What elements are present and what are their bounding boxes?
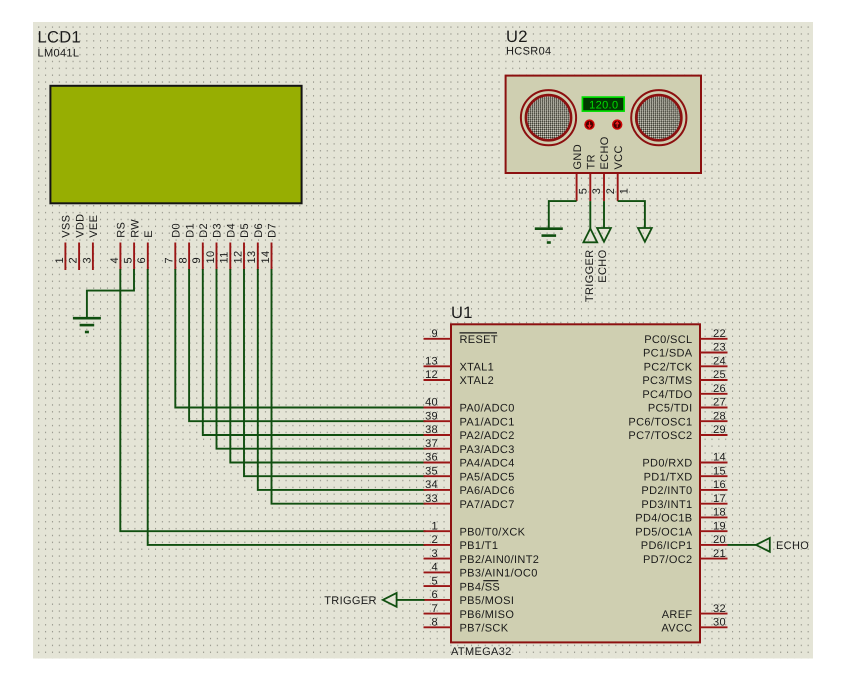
svg-text:7: 7: [432, 603, 438, 615]
U1 left pin 34 (PA6/ADC6): [424, 479, 515, 497]
TRIGGER terminal label (rotated): [584, 250, 596, 303]
U1 left pin 37 (PA3/ADC3): [424, 438, 515, 456]
svg-text:VDD: VDD: [74, 214, 86, 238]
svg-text:PD6/ICP1: PD6/ICP1: [641, 540, 693, 552]
svg-text:6: 6: [432, 589, 438, 601]
U2 HCSR04 body: [506, 76, 701, 173]
svg-text:E: E: [143, 230, 155, 238]
U1 left pin 4 (PB3/AIN1/OC0): [424, 562, 538, 580]
wire: U2 ECHO pin down to ECHO terminal: [603, 201, 605, 228]
svg-text:XTAL1: XTAL1: [460, 362, 495, 374]
svg-text:PC2/TCK: PC2/TCK: [644, 362, 693, 374]
U1 right pin 30 (AVCC): [661, 617, 727, 635]
svg-text:PA3/ADC3: PA3/ADC3: [460, 444, 515, 456]
U1 left pin 39 (PA1/ADC1): [424, 410, 515, 428]
svg-text:PA5/ADC5: PA5/ADC5: [460, 471, 515, 483]
U1 left pin 35 (PA5/ADC5): [424, 465, 515, 483]
U1 left pin 12 (XTAL2): [424, 369, 495, 387]
U1 ATMEGA32 body: [451, 324, 700, 642]
svg-text:D2: D2: [198, 223, 210, 238]
svg-text:16: 16: [713, 479, 726, 491]
U2 right LED indicator (up arrow): [612, 119, 622, 129]
ECHO terminal label at U1: [776, 540, 809, 552]
svg-text:D5: D5: [239, 223, 251, 238]
svg-text:9: 9: [191, 257, 203, 263]
svg-text:7: 7: [164, 257, 176, 263]
wire: LCD D4 to U1 PA4: [230, 269, 425, 463]
svg-text:PA2/ADC2: PA2/ADC2: [460, 430, 515, 442]
U1 right pin 26 (PC4/TDO): [642, 383, 727, 401]
svg-text:5: 5: [123, 257, 135, 263]
svg-text:PB5/MOSI: PB5/MOSI: [460, 595, 515, 607]
wire: U2 VCC pin right and down to power arrow: [618, 201, 645, 228]
svg-text:HCSR04: HCSR04: [506, 46, 552, 58]
svg-text:D0: D0: [171, 223, 183, 238]
svg-text:PB1/T1: PB1/T1: [460, 540, 499, 552]
svg-text:PA6/ADC6: PA6/ADC6: [460, 485, 515, 497]
LCD1 pin 11 (D4): stub, number, name: [219, 223, 238, 270]
LCD1 screen (LM041L display area): [50, 86, 301, 204]
svg-text:D4: D4: [226, 223, 238, 238]
U1 right pin 24 (PC2/TCK): [644, 356, 728, 374]
svg-text:18: 18: [713, 507, 726, 519]
svg-text:19: 19: [713, 520, 726, 532]
VCC power terminal (down arrow): [638, 228, 652, 242]
U1 right pin 23 (PC1/SDA): [643, 342, 728, 360]
U1 left pin 36 (PA4/ADC4): [424, 452, 515, 470]
svg-text:1: 1: [432, 520, 438, 532]
svg-text:120.0: 120.0: [589, 99, 618, 111]
svg-text:PA4/ADC4: PA4/ADC4: [460, 458, 515, 470]
svg-text:17: 17: [713, 493, 726, 505]
svg-text:5: 5: [577, 188, 589, 194]
U1 right pin 32 (AREF): [662, 603, 728, 621]
svg-text:12: 12: [232, 251, 244, 264]
LCD1 pin 4 (RS): stub, number, name: [109, 222, 128, 270]
svg-text:40: 40: [425, 397, 438, 409]
ECHO terminal label (rotated): [597, 249, 609, 282]
svg-text:PB7/SCK: PB7/SCK: [460, 623, 509, 635]
U1 right pin 17 (PD3/INT1): [641, 493, 727, 511]
svg-text:25: 25: [713, 369, 726, 381]
U2 pin 2 (ECHO): stub, number, name: [599, 136, 617, 201]
svg-text:PC0/SCL: PC0/SCL: [644, 334, 692, 346]
svg-text:VCC: VCC: [613, 145, 625, 169]
U2 pin 5 (GND): stub, number, name: [572, 144, 590, 201]
svg-text:4: 4: [109, 257, 121, 263]
svg-text:PD7/OC2: PD7/OC2: [643, 554, 693, 566]
wire: U2 TR pin down to TRIGGER terminal: [589, 201, 591, 228]
U1 left pin 2 (PB1/T1): [424, 534, 499, 552]
svg-text:13: 13: [425, 356, 438, 368]
svg-text:39: 39: [425, 410, 438, 422]
svg-text:U2: U2: [506, 28, 528, 46]
svg-text:ATMEGA32: ATMEGA32: [451, 646, 512, 658]
svg-text:32: 32: [713, 603, 726, 615]
svg-text:2: 2: [68, 257, 80, 263]
svg-text:RESET: RESET: [460, 334, 498, 346]
svg-text:PC6/TOSC1: PC6/TOSC1: [628, 416, 692, 428]
U1 left pin 3 (PB2/AIN0/INT2): [424, 548, 540, 566]
svg-text:8: 8: [432, 617, 438, 629]
svg-text:U1: U1: [451, 304, 473, 322]
svg-text:VEE: VEE: [88, 215, 100, 238]
U1 right pin 28 (PC6/TOSC1): [628, 410, 727, 428]
U2 left LED indicator (down arrow): [584, 119, 594, 129]
svg-text:11: 11: [219, 251, 231, 263]
svg-text:D1: D1: [184, 223, 196, 238]
svg-text:2: 2: [605, 188, 617, 194]
svg-text:9: 9: [432, 328, 438, 340]
U1 right pin 29 (PC7/TOSC2): [628, 424, 727, 442]
svg-text:14: 14: [260, 251, 272, 264]
LCD1 pin 6 (E): stub, number, name: [136, 230, 155, 270]
wire: LCD D0 to U1 PA0: [175, 269, 425, 408]
ECHO terminal (left arrow) at U1: [756, 538, 770, 552]
U1 left pin 33 (PA7/ADC7): [424, 493, 515, 511]
ECHO output terminal (down arrow) below U2: [597, 228, 611, 242]
U1 left pin 40 (PA0/ADC0): [424, 397, 515, 415]
U2 distance display showing 120.0: [582, 97, 624, 111]
wire: LCD RS (pin4) to U1 PB0 pin1: [120, 269, 425, 531]
U1 left pin 7 (PB6/MISO): [424, 603, 515, 621]
svg-text:22: 22: [713, 328, 726, 340]
U1 left pin 9 (RESET): [424, 328, 498, 346]
LCD1 pin 7 (D0): stub, number, name: [164, 223, 183, 270]
svg-text:34: 34: [425, 479, 438, 491]
svg-text:23: 23: [713, 342, 726, 354]
wire: LCD D7 to U1 PA7: [272, 269, 426, 504]
svg-text:TRIGGER: TRIGGER: [324, 595, 377, 607]
svg-text:XTAL2: XTAL2: [460, 375, 495, 387]
svg-text:27: 27: [713, 397, 726, 409]
U2 right ultrasonic transducer: [631, 90, 686, 145]
svg-text:12: 12: [425, 369, 438, 381]
U1 value label ATMEGA32: [451, 646, 512, 658]
TRIGGER terminal label at U1: [324, 595, 377, 607]
svg-text:PC1/SDA: PC1/SDA: [643, 348, 693, 360]
svg-text:20: 20: [713, 534, 726, 546]
ground symbol below U2: [535, 229, 563, 243]
svg-text:PB6/MISO: PB6/MISO: [460, 609, 515, 621]
svg-text:PD2/INT0: PD2/INT0: [641, 485, 692, 497]
wire: TRIGGER terminal to U1 PB5/MOSI: [397, 599, 425, 601]
svg-text:PC5/TDI: PC5/TDI: [648, 403, 693, 415]
U2 left ultrasonic transducer: [521, 90, 576, 145]
svg-text:PA0/ADC0: PA0/ADC0: [460, 403, 515, 415]
svg-text:PC7/TOSC2: PC7/TOSC2: [628, 430, 692, 442]
wire: LCD D6 to U1 PA6: [258, 269, 426, 490]
U2 reference label: [506, 28, 528, 46]
LCD1 pin 2 (VDD): stub, number, name: [68, 214, 87, 270]
svg-text:15: 15: [713, 465, 726, 477]
LCD1 pin 3 (VEE): stub, number, name: [81, 215, 100, 270]
svg-text:38: 38: [425, 424, 438, 436]
LCD1 pin 13 (D6): stub, number, name: [246, 223, 265, 270]
U1 left pin 13 (XTAL1): [424, 356, 495, 374]
U1 right pin 27 (PC5/TDI): [648, 397, 728, 415]
svg-text:8: 8: [178, 257, 190, 263]
svg-text:PD0/RXD: PD0/RXD: [642, 458, 692, 470]
svg-text:21: 21: [713, 548, 726, 560]
svg-text:PB3/AIN1/OC0: PB3/AIN1/OC0: [460, 568, 538, 580]
U2 value label HCSR04: [506, 46, 552, 58]
svg-text:AVCC: AVCC: [661, 623, 692, 635]
svg-text:28: 28: [713, 410, 726, 422]
svg-text:3: 3: [81, 257, 93, 263]
svg-text:TRIGGER: TRIGGER: [584, 250, 596, 303]
svg-text:PD5/OC1A: PD5/OC1A: [635, 526, 693, 538]
U1 right pin 15 (PD1/TXD): [644, 465, 728, 483]
LCD1 pin 5 (RW): stub, number, name: [123, 219, 142, 270]
U1 right pin 20 (PD6/ICP1): [641, 534, 728, 552]
svg-text:14: 14: [713, 452, 726, 464]
svg-text:ECHO: ECHO: [599, 136, 611, 169]
LCD1 pin 1 (VSS): stub, number, name: [54, 215, 73, 270]
U1 left pin 38 (PA2/ADC2): [424, 424, 515, 442]
LCD1 value label LM041L: [38, 48, 80, 60]
svg-text:35: 35: [425, 465, 438, 477]
svg-text:13: 13: [246, 251, 258, 264]
svg-text:24: 24: [713, 356, 726, 368]
U2 pin 1 (VCC): stub, number, name: [613, 145, 631, 201]
svg-text:36: 36: [425, 452, 438, 464]
svg-text:D3: D3: [212, 223, 224, 238]
LCD1 pin 9 (D2): stub, number, name: [191, 223, 210, 270]
svg-text:30: 30: [713, 617, 726, 629]
LCD1 pin 14 (D7): stub, number, name: [260, 223, 279, 270]
wire: LCD D5 to U1 PA5: [244, 269, 426, 476]
U1 right pin 18 (PD4/OC1B): [635, 507, 727, 525]
TRIGGER terminal (left arrow) at U1: [383, 593, 397, 607]
U1 left pin 5 (PB4/SS): [424, 575, 501, 593]
svg-text:PC4/TDO: PC4/TDO: [642, 389, 692, 401]
wire: LCD D3 to U1 PA3: [217, 269, 426, 449]
svg-text:PD3/INT1: PD3/INT1: [641, 499, 692, 511]
svg-text:2: 2: [432, 534, 438, 546]
svg-text:26: 26: [713, 383, 726, 395]
svg-text:LCD1: LCD1: [38, 29, 82, 47]
svg-text:D7: D7: [267, 223, 279, 238]
wire: U2 GND pin to ground: [549, 201, 577, 229]
U1 left pin 8 (PB7/SCK): [424, 617, 509, 635]
svg-text:ECHO: ECHO: [597, 249, 609, 282]
svg-text:PB0/T0/XCK: PB0/T0/XCK: [460, 526, 526, 538]
svg-text:6: 6: [136, 257, 148, 263]
wire: LCD D1 to U1 PA1: [189, 269, 425, 421]
U2 pin 3 (TR): stub, number, name: [586, 154, 604, 201]
U1 right pin 25 (PC3/TMS): [642, 369, 727, 387]
LCD1 reference label: [38, 29, 82, 47]
svg-text:TR: TR: [586, 154, 598, 169]
wire: U1 PD6/ICP1 to ECHO terminal: [728, 544, 757, 546]
svg-text:RW: RW: [129, 219, 141, 238]
TRIGGER input terminal (up arrow) below U2: [583, 229, 597, 243]
svg-text:PB2/AIN0/INT2: PB2/AIN0/INT2: [460, 554, 540, 566]
svg-text:GND: GND: [572, 144, 584, 170]
U1 left pin 6 (PB5/MOSI): [424, 589, 515, 607]
LCD1 pin 8 (D1): stub, number, name: [178, 223, 197, 270]
svg-text:ECHO: ECHO: [776, 540, 809, 552]
svg-text:29: 29: [713, 424, 726, 436]
svg-text:RS: RS: [116, 222, 128, 238]
svg-text:LM041L: LM041L: [38, 48, 80, 60]
U1 left pin 1 (PB0/T0/XCK): [424, 520, 526, 538]
svg-text:PA7/ADC7: PA7/ADC7: [460, 499, 515, 511]
svg-text:PB4/SS: PB4/SS: [460, 581, 501, 593]
wire: LCD E (pin6) to U1 PB1 pin2: [148, 269, 426, 545]
svg-text:D6: D6: [253, 223, 265, 238]
svg-text:VSS: VSS: [61, 215, 73, 238]
svg-text:PA1/ADC1: PA1/ADC1: [460, 416, 515, 428]
U1 reference label: [451, 304, 473, 322]
LCD1 pin 12 (D5): stub, number, name: [232, 223, 251, 270]
wire: LCD D2 to U1 PA2: [203, 269, 426, 435]
U1 right pin 21 (PD7/OC2): [643, 548, 728, 566]
U1 right pin 14 (PD0/RXD): [642, 452, 727, 470]
svg-text:37: 37: [425, 438, 438, 450]
U1 right pin 19 (PD5/OC1A): [635, 520, 727, 538]
svg-text:AREF: AREF: [662, 609, 693, 621]
U1 right pin 16 (PD2/INT0): [641, 479, 727, 497]
wire: LCD RW (pin5) down, left and to ground: [87, 269, 134, 318]
svg-text:10: 10: [205, 251, 217, 264]
U1 right pin 22 (PC0/SCL): [644, 328, 727, 346]
ground symbol below LCD: [73, 318, 101, 332]
svg-text:1: 1: [619, 188, 631, 194]
svg-text:5: 5: [432, 575, 438, 587]
LCD1 pin 10 (D3): stub, number, name: [205, 223, 224, 270]
svg-text:PD1/TXD: PD1/TXD: [644, 471, 693, 483]
svg-text:PC3/TMS: PC3/TMS: [642, 375, 692, 387]
svg-text:3: 3: [432, 548, 438, 560]
svg-text:33: 33: [425, 493, 438, 505]
svg-text:PD4/OC1B: PD4/OC1B: [635, 513, 692, 525]
svg-text:1: 1: [54, 257, 66, 263]
svg-text:4: 4: [432, 562, 438, 574]
svg-text:3: 3: [591, 188, 603, 194]
